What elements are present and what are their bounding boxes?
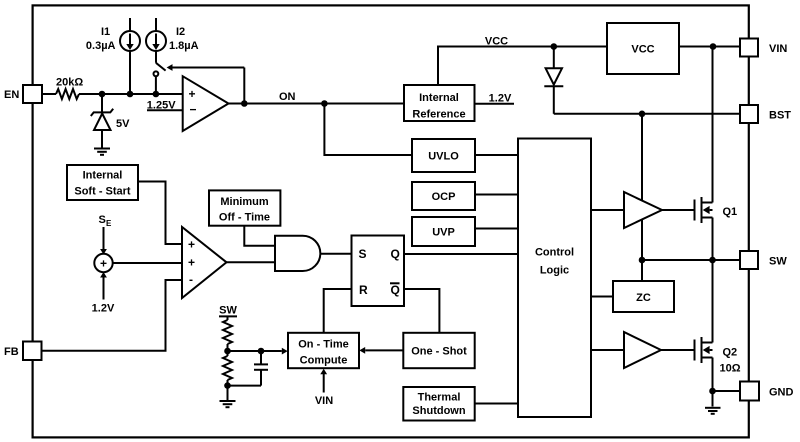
node 1.2V input arrow bbox=[92, 272, 115, 315]
switch (I2 enable) bbox=[154, 63, 166, 94]
wire diode to BST bbox=[554, 113, 740, 115]
svg-text:1.25V: 1.25V bbox=[147, 100, 176, 112]
svg-text:Internal: Internal bbox=[83, 170, 123, 182]
wire comparator feedback to switch bbox=[167, 64, 245, 103]
AND gate bbox=[275, 236, 320, 271]
svg-text:ON: ON bbox=[279, 91, 296, 103]
thermal shutdown block bbox=[403, 387, 474, 421]
wire VCC to VIN bbox=[679, 46, 740, 48]
node I1 junction bbox=[127, 91, 134, 98]
one-shot block bbox=[403, 333, 474, 368]
wire AND gate to S input bbox=[320, 253, 351, 255]
svg-text:+: + bbox=[188, 238, 195, 252]
svg-text:I2: I2 bbox=[176, 26, 185, 38]
svg-text:1.2V: 1.2V bbox=[92, 303, 115, 315]
svg-text:Q2: Q2 bbox=[723, 347, 738, 359]
pin FB bbox=[4, 342, 42, 361]
svg-text:Internal: Internal bbox=[419, 92, 459, 104]
wire Q2 drain to SW bbox=[712, 260, 714, 343]
comparator UVLO bbox=[412, 139, 475, 172]
ground (zener) bbox=[94, 149, 110, 155]
wire Q1 drain to VIN bbox=[712, 47, 714, 203]
node I2 junction bbox=[153, 91, 160, 98]
wire OCP to control logic bbox=[475, 194, 518, 196]
svg-text:On - Time: On - Time bbox=[298, 339, 349, 351]
svg-text:Reference: Reference bbox=[412, 109, 465, 121]
svg-text:Q: Q bbox=[391, 283, 400, 297]
svg-text:5V: 5V bbox=[116, 118, 130, 130]
svg-text:Thermal: Thermal bbox=[418, 392, 461, 404]
svg-text:E: E bbox=[106, 219, 112, 228]
svg-text:VIN: VIN bbox=[769, 43, 787, 55]
wire SW line bbox=[642, 259, 740, 261]
svg-text:ZC: ZC bbox=[636, 292, 651, 304]
wire control logic to Q2 driver bbox=[591, 349, 624, 351]
node GND junction bbox=[709, 388, 716, 395]
node capacitor tap bbox=[258, 348, 265, 355]
net label SW (feed-forward) bbox=[219, 305, 237, 317]
wire to GND pin bbox=[713, 390, 741, 392]
svg-text:1.2V: 1.2V bbox=[489, 93, 512, 105]
svg-text:S: S bbox=[99, 214, 106, 226]
wire R input from on-time compute bbox=[324, 289, 352, 333]
internal soft-start block bbox=[67, 165, 138, 200]
wire one-shot to on-time compute with arrow bbox=[359, 347, 403, 354]
pin EN bbox=[4, 85, 42, 103]
wire resistor to comparator bbox=[79, 93, 183, 95]
svg-text:GND: GND bbox=[769, 387, 794, 399]
wire 1.2V reference output bbox=[475, 93, 515, 105]
svg-text:10Ω: 10Ω bbox=[720, 363, 741, 375]
svg-text:1.8µA: 1.8µA bbox=[169, 40, 199, 52]
capacitor CFF bbox=[228, 351, 269, 386]
comparator UVP bbox=[412, 217, 475, 246]
current source I2 1.8uA bbox=[146, 18, 199, 63]
zener diode 5V bbox=[91, 95, 130, 148]
pin BST bbox=[740, 105, 791, 123]
regulator VCC bbox=[607, 23, 679, 74]
diode bootstrap bbox=[544, 47, 563, 114]
wire VCC rail bbox=[438, 36, 607, 86]
wire thermal shutdown to control logic bbox=[475, 403, 518, 405]
op-amp EN comparator bbox=[183, 76, 229, 131]
svg-text:0.3µA: 0.3µA bbox=[86, 40, 116, 52]
wire driver to Q1 gate bbox=[662, 209, 695, 211]
wire ON to UVLO bbox=[324, 104, 412, 156]
svg-text:−: − bbox=[190, 103, 197, 117]
resistor 20k bbox=[56, 77, 83, 100]
node VIN junction bbox=[710, 43, 717, 50]
ground (divider) bbox=[220, 386, 236, 408]
svg-text:+: + bbox=[188, 256, 195, 270]
svg-text:Compute: Compute bbox=[300, 355, 348, 367]
resistor RB (SW divider bottom) bbox=[223, 351, 232, 386]
wire Q output to control logic bbox=[404, 253, 518, 255]
resistor RA (SW divider top) bbox=[223, 316, 232, 351]
svg-text:Q: Q bbox=[391, 247, 400, 261]
svg-text:S: S bbox=[359, 247, 367, 261]
wire summing node to error amp bbox=[113, 262, 182, 264]
svg-text:-: - bbox=[189, 273, 193, 287]
svg-text:Soft - Start: Soft - Start bbox=[74, 186, 131, 198]
svg-text:Logic: Logic bbox=[540, 265, 569, 277]
svg-text:SW: SW bbox=[769, 256, 787, 268]
svg-text:VCC: VCC bbox=[485, 36, 508, 48]
svg-text:EN: EN bbox=[4, 89, 19, 101]
current source I1 0.3uA bbox=[86, 18, 140, 94]
comparator OCP bbox=[412, 182, 475, 210]
svg-text:UVP: UVP bbox=[432, 227, 455, 239]
svg-text:+: + bbox=[100, 257, 107, 271]
node SW-Q1 junction bbox=[709, 257, 716, 264]
svg-text:Shutdown: Shutdown bbox=[412, 405, 465, 417]
wire BST rail down to ZC bbox=[641, 114, 643, 281]
svg-text:One - Shot: One - Shot bbox=[411, 346, 467, 358]
svg-text:20kΩ: 20kΩ bbox=[56, 77, 83, 89]
driver Q2 (low side) bbox=[624, 332, 661, 368]
comparator ZC bbox=[613, 281, 674, 312]
pin GND bbox=[740, 382, 794, 401]
wire 1.25V reference input bbox=[147, 100, 183, 112]
wire UVP to control logic bbox=[475, 228, 518, 230]
wire control logic to Q1 driver bbox=[591, 209, 624, 211]
svg-text:+: + bbox=[189, 87, 196, 101]
wire ON comparator output bbox=[229, 91, 405, 104]
wire EN to resistor bbox=[42, 93, 56, 95]
node VCC-diode junction bbox=[551, 43, 558, 50]
svg-text:VIN: VIN bbox=[315, 395, 333, 407]
wire divider to on-time compute with arrow bbox=[228, 348, 288, 355]
wire min-off-time to AND gate bbox=[244, 226, 275, 246]
on-time compute block bbox=[288, 333, 359, 368]
svg-text:Off - Time: Off - Time bbox=[219, 212, 270, 224]
node BST junction bbox=[639, 111, 646, 118]
node SW-driver junction bbox=[639, 257, 646, 264]
svg-text:I1: I1 bbox=[101, 26, 110, 38]
svg-text:FB: FB bbox=[4, 346, 19, 358]
transistor Q2 bbox=[695, 337, 741, 375]
svg-text:Q1: Q1 bbox=[723, 206, 738, 218]
wire UVLO to control logic bbox=[475, 154, 518, 156]
node EN-zener junction bbox=[99, 91, 106, 98]
svg-text:UVLO: UVLO bbox=[428, 151, 459, 163]
summing node SE bbox=[94, 254, 112, 272]
svg-text:Control: Control bbox=[535, 247, 574, 259]
wire Q1 source to SW bbox=[712, 218, 714, 261]
wire FB to error amp bbox=[42, 280, 183, 351]
op-amp error amplifier bbox=[182, 227, 227, 298]
wire soft-start to error amp bbox=[138, 182, 182, 245]
svg-text:BST: BST bbox=[769, 110, 791, 122]
svg-text:Minimum: Minimum bbox=[220, 196, 268, 208]
minimum off-time block bbox=[209, 190, 280, 225]
control logic U3 bbox=[518, 139, 591, 418]
pin SW bbox=[740, 251, 787, 269]
transistor Q1 bbox=[695, 197, 738, 223]
ground (Q2 source) bbox=[705, 391, 721, 414]
wire Q2 source to GND bbox=[712, 358, 714, 392]
wire error amp to AND gate bbox=[227, 261, 276, 263]
node divider bottom bbox=[224, 382, 231, 389]
wire driver to Q2 gate bbox=[661, 349, 695, 351]
svg-text:VCC: VCC bbox=[631, 44, 654, 56]
node VIN input arrow bbox=[315, 369, 333, 407]
internal reference U2 bbox=[404, 85, 475, 121]
driver Q1 (high side) bbox=[624, 192, 662, 228]
node comparator output bbox=[241, 100, 248, 107]
svg-text:SW: SW bbox=[219, 305, 237, 317]
svg-text:OCP: OCP bbox=[432, 191, 456, 203]
wire Qbar to one-shot bbox=[404, 289, 439, 333]
node divider mid bbox=[224, 348, 231, 355]
node ON junction bbox=[321, 100, 328, 107]
wire control logic to ZC bbox=[591, 296, 613, 298]
latch SR bbox=[352, 236, 405, 307]
pin VIN bbox=[740, 39, 787, 57]
svg-text:R: R bbox=[359, 283, 368, 297]
node SE input arrow bbox=[99, 214, 113, 255]
